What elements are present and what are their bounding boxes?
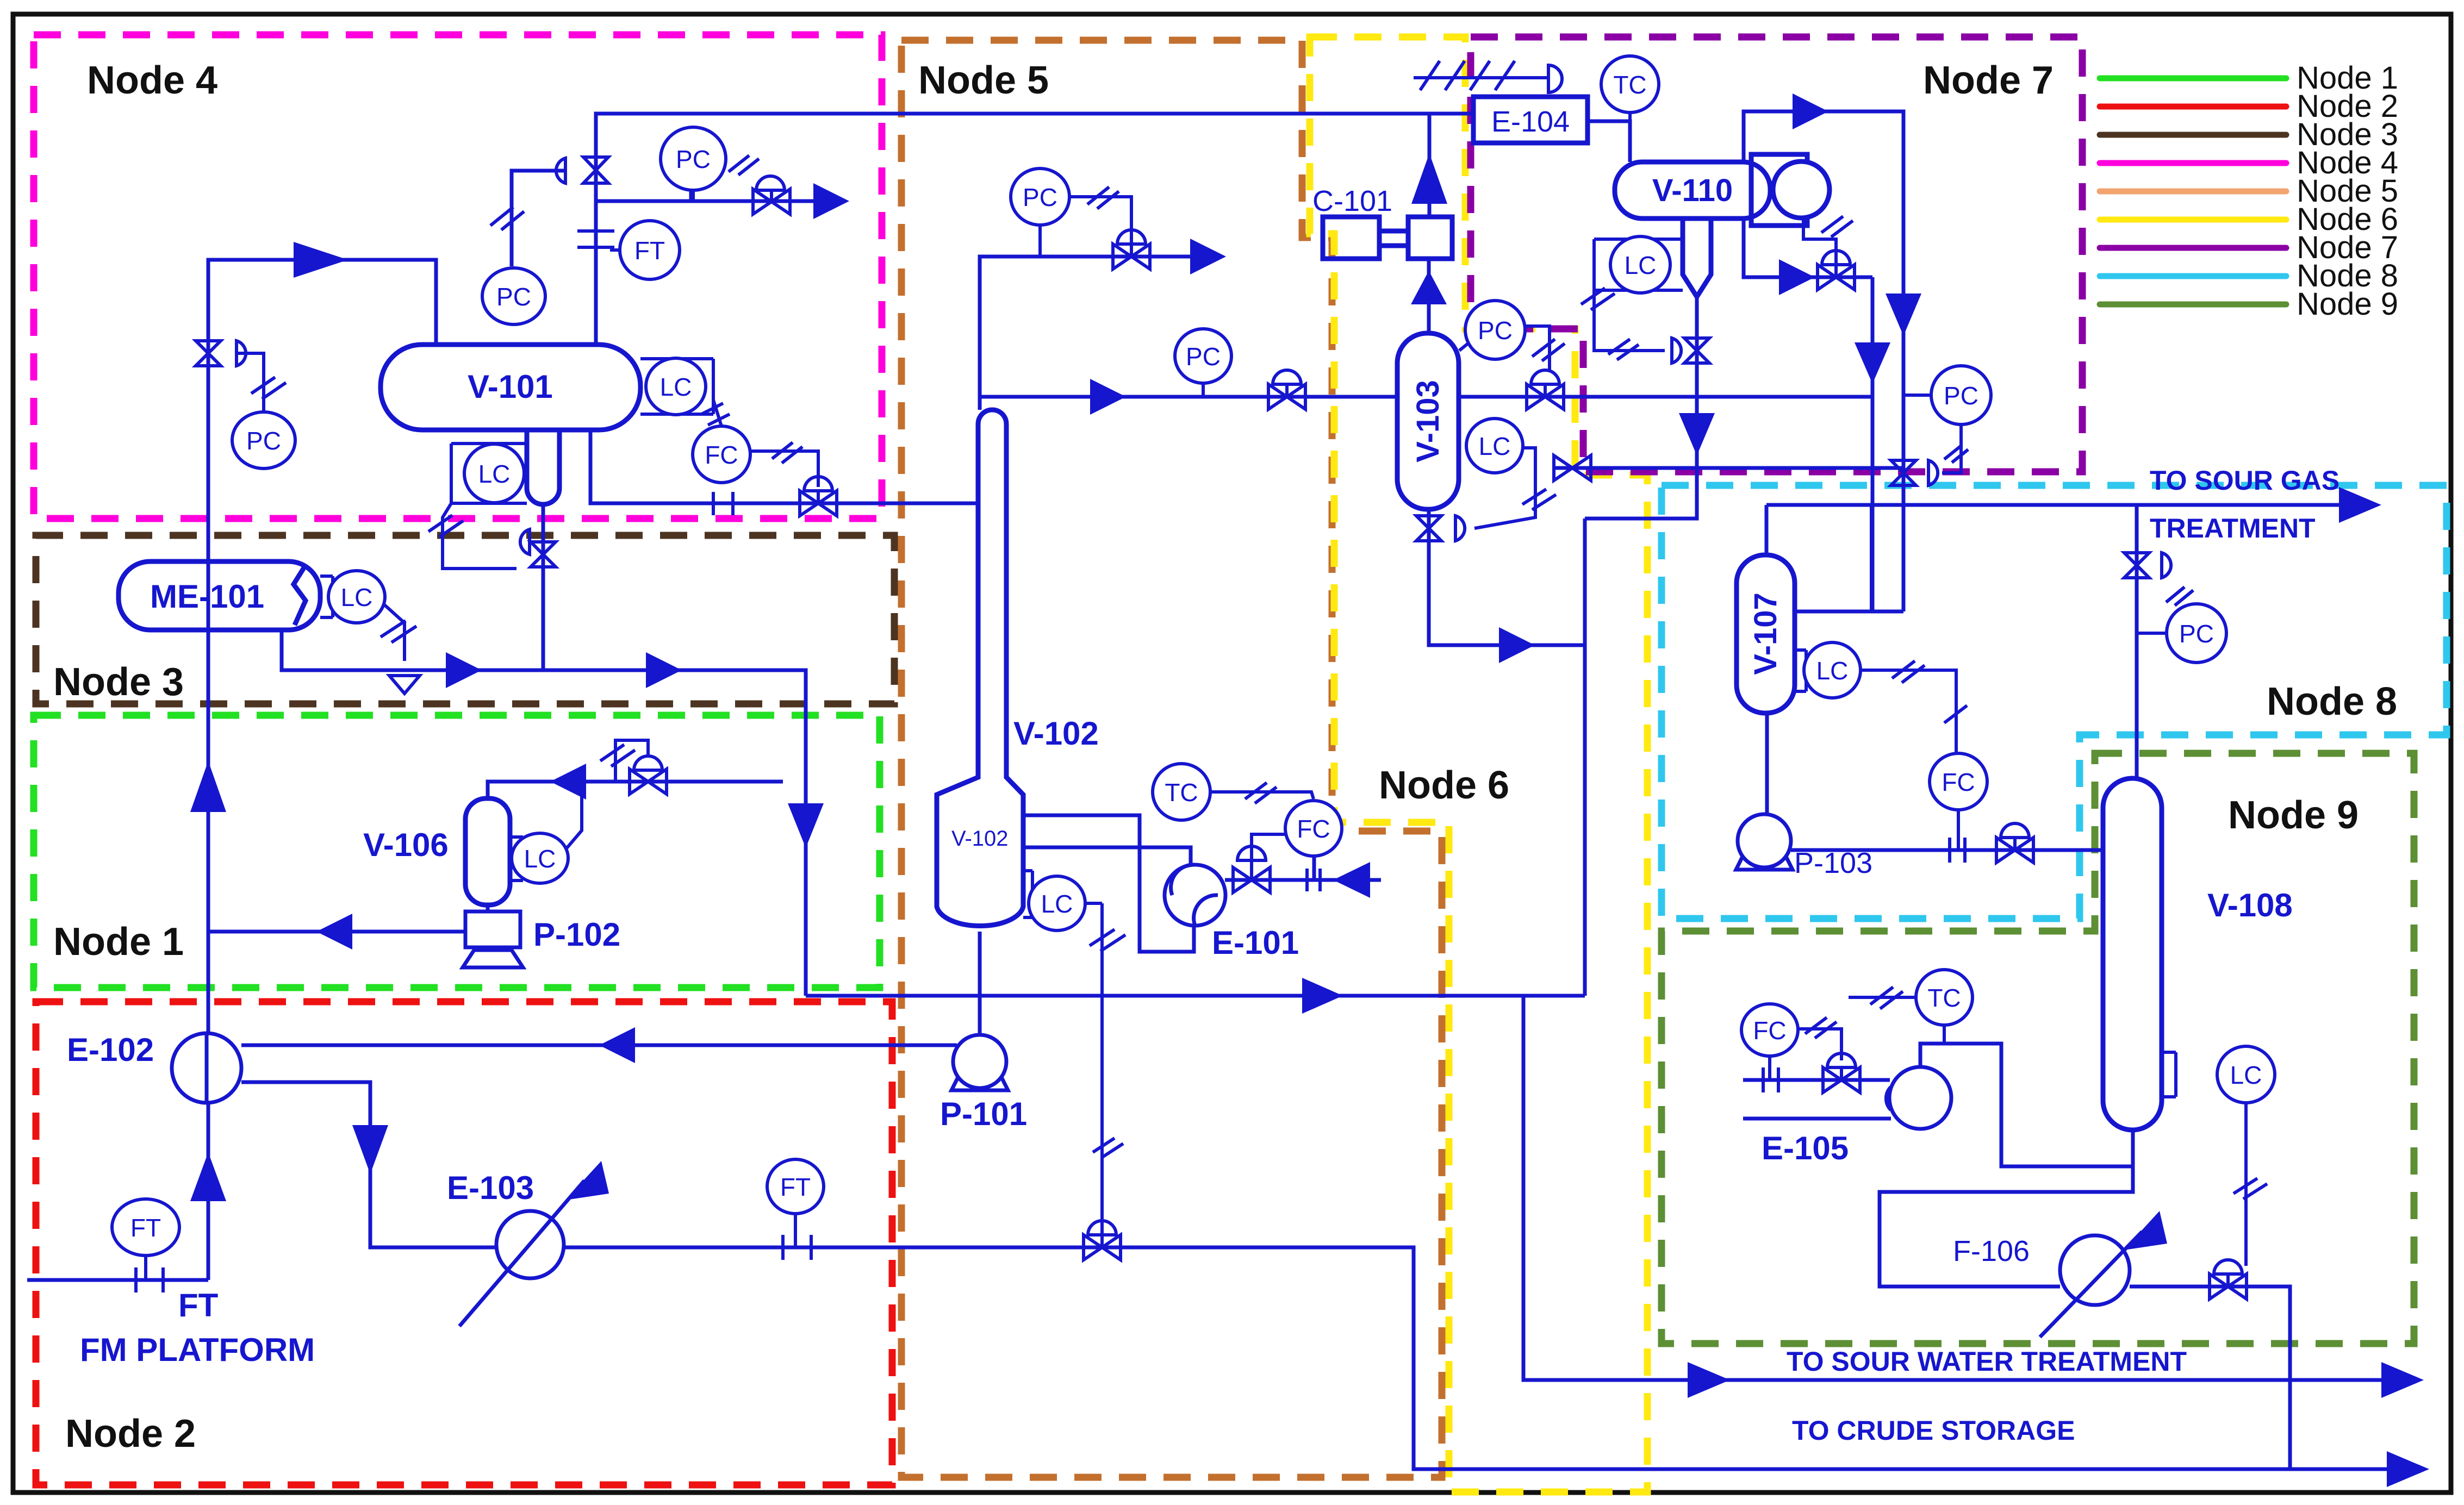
svg-text:V-103: V-103 [1410,380,1446,463]
svg-text:TO CRUDE STORAGE: TO CRUDE STORAGE [1792,1415,2075,1446]
svg-text:Node 9: Node 9 [2228,794,2359,837]
svg-text:E-102: E-102 [67,1032,154,1068]
svg-text:PC: PC [2179,620,2214,648]
svg-text:LC: LC [1041,890,1073,918]
svg-text:F-106: F-106 [1953,1235,2030,1267]
svg-text:LC: LC [1816,657,1849,685]
svg-text:LC: LC [341,583,373,611]
svg-text:TO SOUR WATER TREATMENT: TO SOUR WATER TREATMENT [1787,1346,2187,1377]
svg-text:FT: FT [130,1214,161,1242]
svg-text:E-103: E-103 [447,1170,534,1206]
svg-text:Node 1: Node 1 [53,920,184,964]
svg-text:Node 5: Node 5 [918,59,1049,102]
svg-text:LC: LC [1479,432,1511,460]
svg-text:V-107: V-107 [1748,592,1783,675]
svg-text:FC: FC [1297,815,1330,843]
svg-text:P-101: P-101 [940,1096,1027,1132]
svg-text:Node 2: Node 2 [65,1412,196,1456]
svg-text:FC: FC [705,441,738,469]
svg-text:C-101: C-101 [1312,185,1392,217]
svg-text:V-102: V-102 [1013,715,1099,752]
svg-text:TREATMENT: TREATMENT [2150,513,2316,544]
svg-text:P-102: P-102 [533,916,620,953]
svg-text:PC: PC [246,427,281,455]
svg-text:Node 7: Node 7 [1923,59,2054,102]
svg-text:TC: TC [1165,778,1198,807]
svg-text:PC: PC [676,145,711,173]
svg-text:E-104: E-104 [1491,105,1570,138]
svg-text:V-110: V-110 [1652,173,1733,208]
svg-text:FT: FT [780,1173,811,1201]
svg-text:LC: LC [524,845,556,873]
svg-text:ME-101: ME-101 [150,578,264,615]
svg-text:Node 9: Node 9 [2297,286,2398,322]
svg-text:Node 8: Node 8 [2267,680,2397,723]
svg-text:Node 6: Node 6 [1379,764,1509,807]
svg-text:LC: LC [478,460,511,488]
svg-text:PC: PC [496,283,531,311]
svg-text:FT: FT [634,236,665,265]
svg-text:PC: PC [1186,342,1221,371]
svg-text:PC: PC [1023,183,1057,211]
svg-text:PC: PC [1478,316,1513,345]
svg-text:LC: LC [2230,1061,2262,1089]
svg-text:V-106: V-106 [363,827,449,863]
svg-text:P-103: P-103 [1794,847,1872,879]
svg-text:FC: FC [1753,1016,1786,1045]
svg-text:TO SOUR GAS: TO SOUR GAS [2150,465,2339,496]
svg-text:V-101: V-101 [468,369,553,405]
svg-text:Node 3: Node 3 [53,660,184,704]
svg-text:E-101: E-101 [1212,925,1299,961]
svg-text:V-108: V-108 [2207,887,2293,923]
svg-text:V-102: V-102 [951,827,1009,851]
svg-text:LC: LC [660,373,692,401]
svg-text:TC: TC [1613,71,1646,99]
svg-text:PC: PC [1944,382,1978,410]
svg-text:FM PLATFORM: FM PLATFORM [80,1332,315,1368]
svg-text:FC: FC [1942,768,1975,796]
svg-text:E-105: E-105 [1762,1130,1849,1166]
svg-text:Node 4: Node 4 [87,59,217,102]
svg-text:FT: FT [178,1287,218,1323]
svg-text:LC: LC [1625,251,1657,279]
svg-text:TC: TC [1927,984,1961,1012]
